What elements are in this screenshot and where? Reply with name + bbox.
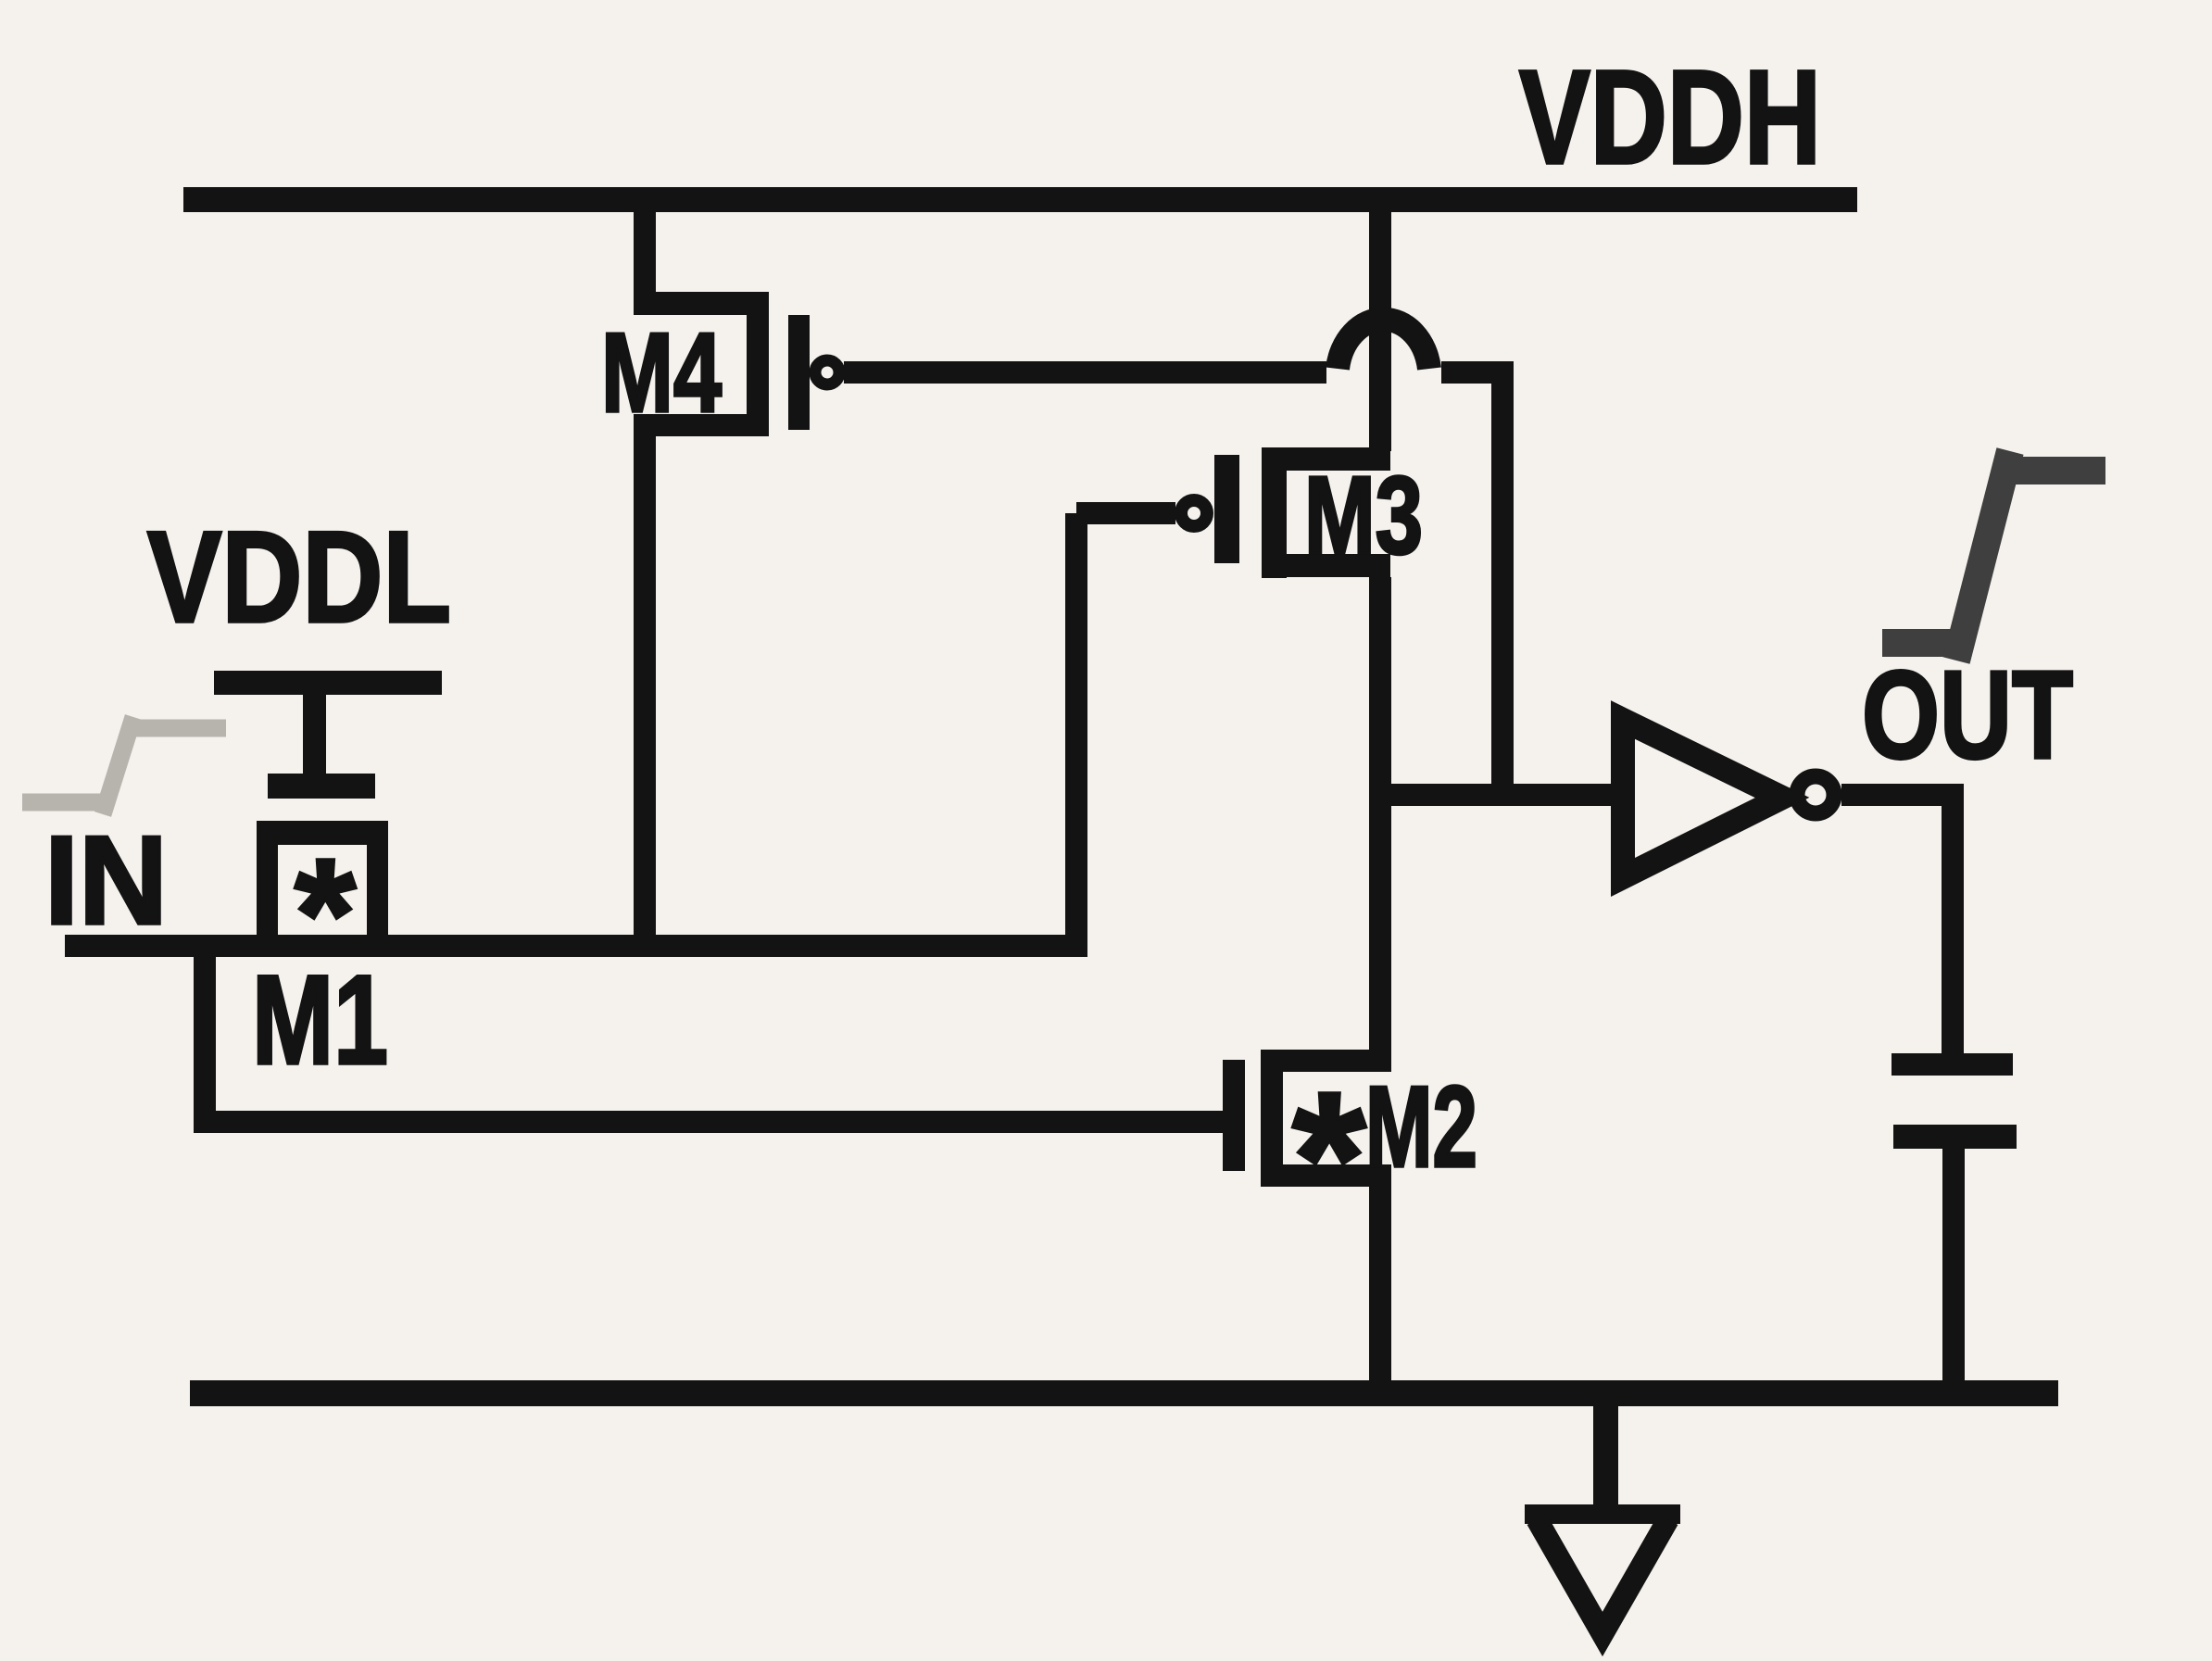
svg-text:OUT: OUT xyxy=(1862,645,2073,785)
svg-text:*: * xyxy=(1292,1052,1366,1265)
svg-text:M1: M1 xyxy=(252,950,388,1091)
svg-text:IN: IN xyxy=(44,810,168,950)
svg-text:M3: M3 xyxy=(1304,454,1423,577)
svg-text:VDDL: VDDL xyxy=(147,504,451,649)
svg-text:M2: M2 xyxy=(1365,1063,1477,1191)
svg-text:VDDH: VDDH xyxy=(1519,43,1821,192)
svg-text:M4: M4 xyxy=(601,309,722,435)
